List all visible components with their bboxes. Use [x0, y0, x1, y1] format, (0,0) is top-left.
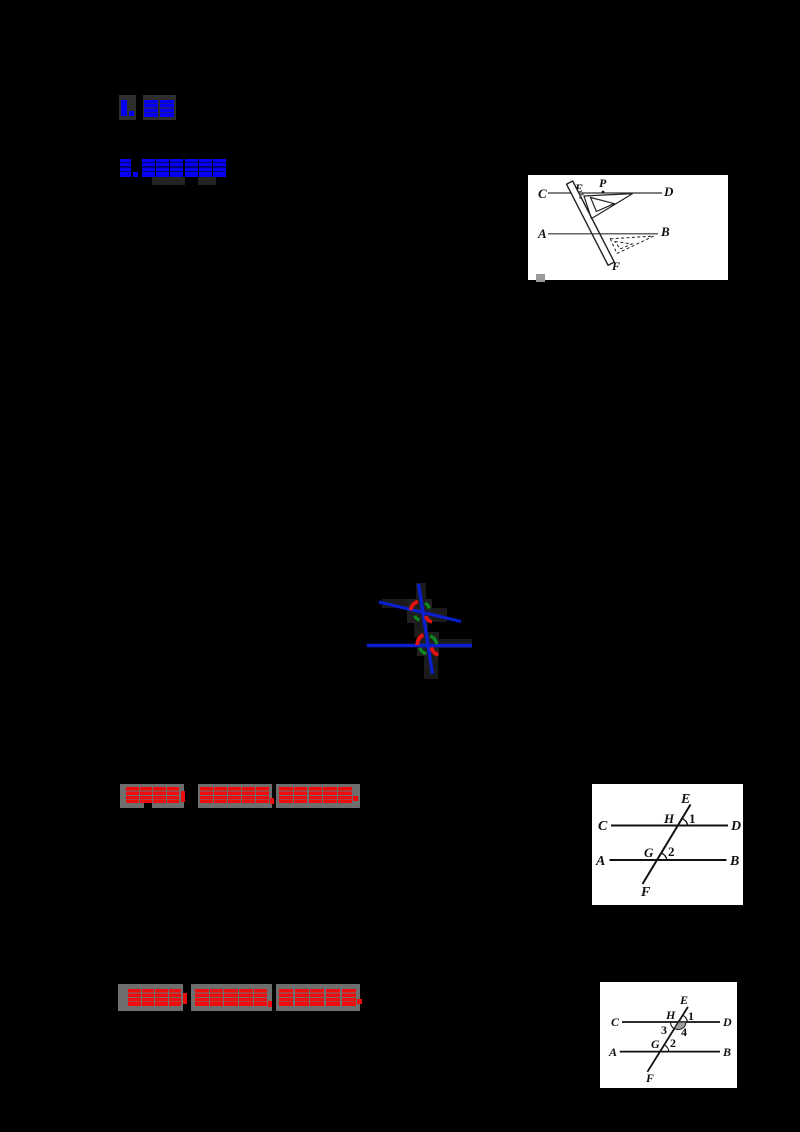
svg-text:E: E [680, 792, 690, 807]
svg-text:F: F [645, 1071, 654, 1085]
figure 3 white box [600, 982, 737, 1088]
red text line 1 group "同位角相等，" [200, 787, 274, 805]
red text line 1 group "简单说成：" [126, 787, 185, 805]
figure 2 white box [592, 784, 743, 905]
svg-text:2: 2 [668, 844, 675, 859]
svg-text:H: H [663, 811, 675, 826]
line AB [548, 233, 658, 235]
svg-text:4: 4 [681, 1025, 687, 1039]
upper crossing green NE arc [425, 603, 429, 608]
line CD [611, 825, 728, 827]
svg-text:B: B [722, 1045, 731, 1059]
upper slanted line [379, 602, 461, 622]
line CD [548, 192, 662, 194]
red text line 1 group "两直线平行。" [279, 787, 358, 805]
svg-text:F: F [611, 259, 620, 273]
red text line 2 group "两直线平行。" [279, 989, 362, 1007]
transversal EF [647, 1007, 688, 1072]
svg-text:A: A [595, 854, 605, 869]
svg-text:A: A [537, 226, 547, 241]
heading 1 highlight box b [143, 95, 176, 120]
red text line 2 group "内错角相等，" [195, 989, 272, 1007]
svg-text:B: B [729, 854, 739, 869]
heading 2 sub highlight a [152, 177, 185, 185]
set square solid [584, 194, 633, 219]
transversal EF [643, 805, 691, 885]
svg-text:A: A [608, 1045, 617, 1059]
point P dot [602, 191, 605, 194]
svg-text:D: D [663, 184, 674, 199]
svg-text:P: P [599, 176, 607, 190]
transversal EF (blue steep line) [419, 584, 433, 674]
svg-text:1: 1 [688, 1009, 694, 1023]
svg-text:H: H [665, 1008, 676, 1022]
upper crossing green SW arc [415, 616, 420, 621]
red line 1 gray highlight c [276, 784, 360, 808]
angle 2 arc at G [661, 853, 667, 860]
svg-text:C: C [538, 186, 547, 201]
svg-text:B: B [660, 224, 670, 239]
svg-text:G: G [644, 845, 654, 860]
lower crossing green NE arc [430, 636, 437, 644]
svg-text:1: 1 [689, 811, 696, 826]
red line 1 notch [144, 800, 152, 808]
figure 1 white box (ruler and set-square) [528, 175, 728, 280]
gray handle square [536, 274, 545, 282]
lower crossing red NW arc [417, 635, 423, 645]
ruler [567, 181, 615, 265]
svg-text:3: 3 [661, 1023, 667, 1037]
arc at E [580, 194, 584, 199]
lower horizontal line [367, 644, 472, 647]
lower crossing green SW arc [420, 648, 427, 654]
svg-text:D: D [730, 819, 741, 834]
svg-text:E: E [679, 993, 688, 1007]
upper crossing red NW arc [411, 602, 418, 611]
svg-text:C: C [598, 819, 608, 834]
red line 2 gray highlight a [118, 984, 183, 1011]
heading 1 text "1、定义" [121, 100, 174, 118]
line AB [620, 1051, 720, 1053]
lower crossing red SE arc [431, 647, 438, 654]
svg-text:G: G [651, 1037, 660, 1051]
angle 2 arc at G [664, 1045, 669, 1052]
dashed set square [610, 236, 653, 253]
line AB [610, 859, 727, 861]
svg-text:C: C [611, 1015, 620, 1029]
line CD [622, 1021, 720, 1023]
middle figure: faint selection rects [416, 583, 426, 600]
angle 1 arc [682, 1015, 687, 1022]
red line 2 gray highlight c [276, 984, 360, 1011]
svg-text:F: F [640, 885, 651, 900]
heading 2 sub highlight b [198, 177, 216, 185]
middle figure: lines and angle marks [355, 575, 485, 685]
angle 4 shaded sector [675, 1022, 687, 1030]
red line 1 gray highlight a [120, 784, 184, 808]
heading 1 highlight box a [119, 95, 136, 120]
red text line 2 group "简单说成：" [128, 989, 187, 1007]
svg-text:D: D [722, 1015, 732, 1029]
heading 2 text "2、平行线的画法" [120, 159, 226, 177]
upper crossing red SE arc [426, 616, 432, 622]
angle 1 arc at H [682, 819, 688, 826]
red line 1 gray highlight b [198, 784, 272, 808]
angle 3 arc [671, 1022, 675, 1029]
red line 2 gray highlight b [191, 984, 272, 1011]
svg-text:2: 2 [670, 1036, 676, 1050]
